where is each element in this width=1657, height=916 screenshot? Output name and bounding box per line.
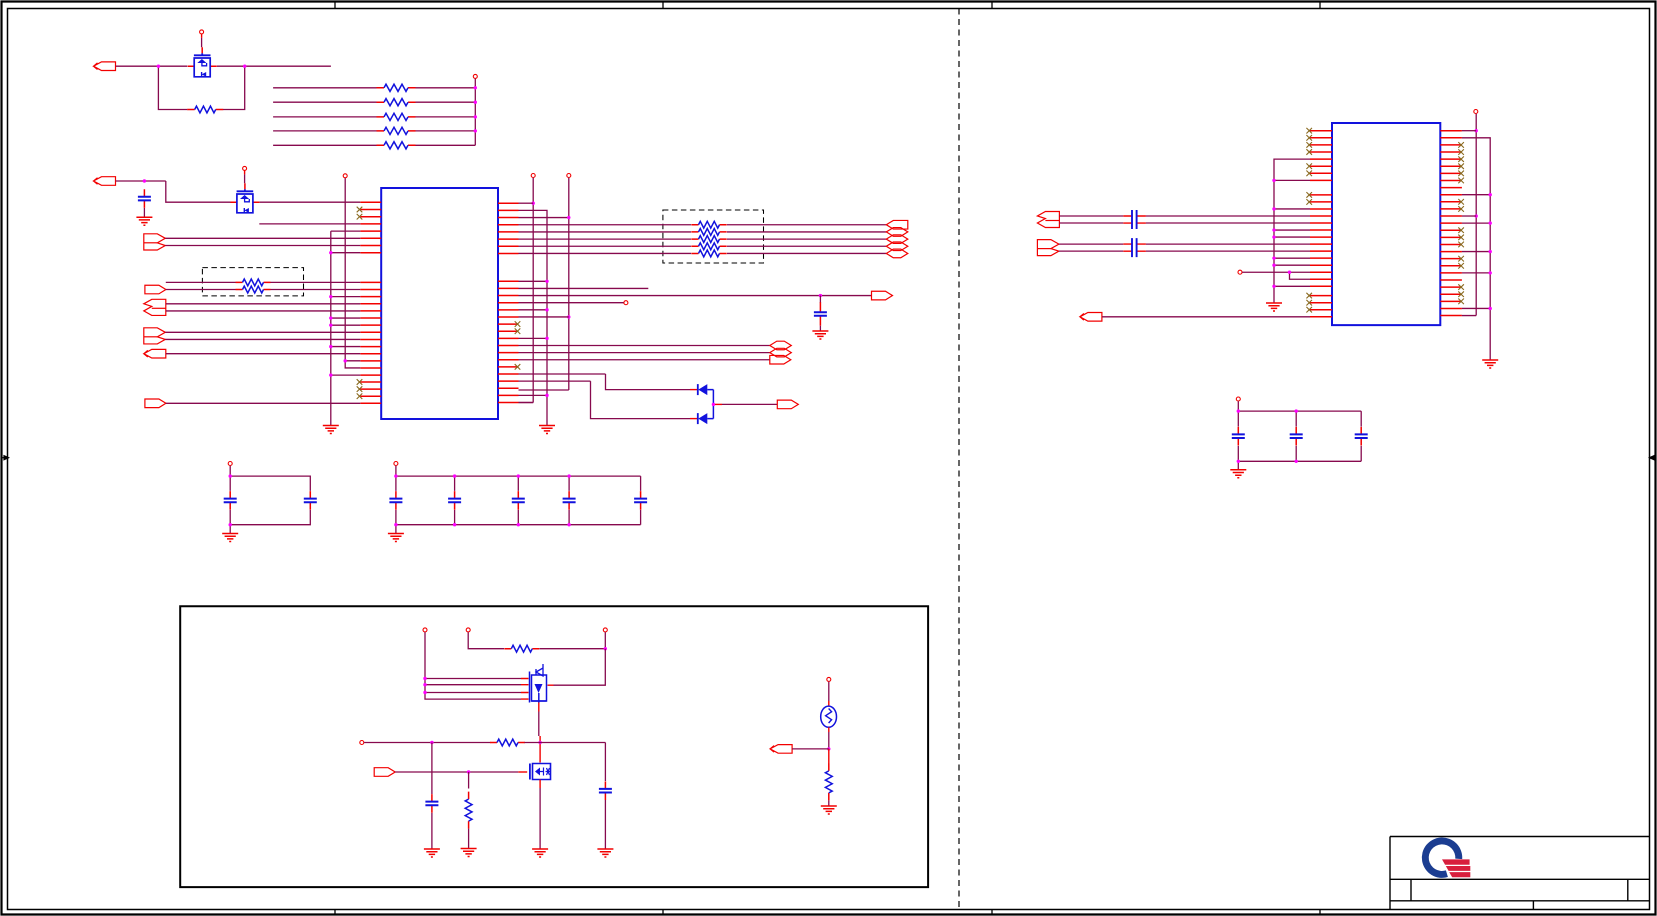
border zone tick marks top <box>335 2 1320 9</box>
pwr <box>567 174 571 178</box>
wire RN4 right <box>416 130 476 132</box>
wire U1.R7 to pack <box>519 245 692 247</box>
resistor pack dashed box DB2 <box>663 210 764 263</box>
wire BU2L to U2.m3 <box>1274 208 1310 210</box>
no-connect U2 right 5 <box>1458 156 1464 162</box>
wire RN2 right <box>416 101 476 103</box>
junction VCC2-4 <box>474 129 477 132</box>
wire R6 to gnd <box>468 829 470 849</box>
R7 stub <box>828 749 830 764</box>
port <box>886 220 908 229</box>
IC U1 right pin stubs <box>498 203 519 402</box>
subcircuit enclosure box <box>180 606 928 887</box>
junction CB2 top <box>394 474 397 477</box>
wire bus BL1 to U1.M7 <box>331 324 361 326</box>
no-connect U2 right 23 <box>1458 284 1464 290</box>
port <box>144 234 166 250</box>
resistor RN3 <box>377 116 416 118</box>
ground G14 <box>1230 470 1246 478</box>
junction BU2L-m7 <box>1272 235 1275 238</box>
no-connect U2 right 8 <box>1458 178 1464 184</box>
diode common cathode wire <box>707 390 713 419</box>
port <box>94 177 116 186</box>
junction node H <box>827 747 830 750</box>
transistor Q4 body <box>530 672 547 703</box>
no-connect U1 left pin2 <box>357 207 363 213</box>
wire VCC2 bus <box>474 79 476 146</box>
pwr <box>466 628 470 632</box>
ground G7 <box>597 849 613 857</box>
capacitor C13 <box>1295 427 1297 446</box>
capacitor pair CP2 stubs <box>1123 244 1146 251</box>
capacitor C14 <box>1360 427 1362 446</box>
wire U1.R1 to BR1 <box>519 202 534 204</box>
wire pack RP2 to port <box>727 231 886 233</box>
junction N1-a <box>157 65 160 68</box>
wire bus BL1 to U1.M14 <box>331 374 361 376</box>
IC U1 left pin stubs <box>360 202 381 403</box>
junction BUB-10 <box>1489 193 1492 196</box>
junction BUB-18 <box>1489 250 1492 253</box>
wire T2 to R5 <box>364 742 490 744</box>
no-connect U2 left m2 <box>1306 199 1312 205</box>
thermistor RT1 stub bottom <box>828 727 830 732</box>
wire RN5 left <box>273 144 376 146</box>
junction CB3 bot2 <box>1295 460 1298 463</box>
wire P14 to node H <box>792 748 829 750</box>
wire U1.L4 stub net <box>259 223 360 225</box>
ground G4 <box>812 331 828 339</box>
capacitor CP1 plates <box>1132 210 1137 229</box>
junction CB3 top2 <box>1295 409 1298 412</box>
wire RN5 right <box>416 144 476 146</box>
wire node D down to Q4 drain <box>554 649 606 686</box>
wire U1.M10 to port P9a <box>519 344 770 346</box>
wire VCC11 stub <box>604 632 606 649</box>
no-connect U2 right 12 <box>1458 206 1464 212</box>
junction BUB-26 <box>1489 307 1492 310</box>
capacitor pair CP1 stubs <box>1123 216 1146 223</box>
pwr <box>200 30 204 34</box>
border center arrow right <box>1650 456 1656 460</box>
port <box>145 285 166 294</box>
no-connect U2 left t4 <box>1306 149 1312 155</box>
junction node D <box>604 647 607 650</box>
wire CP2b to U2.m9 <box>1146 250 1310 252</box>
pwr <box>343 174 347 178</box>
wire CP1b to U2.m5 <box>1146 222 1310 224</box>
pwr <box>531 174 535 178</box>
wire CP1a to U2.m4 <box>1146 215 1310 217</box>
Q5 drain stub <box>539 736 541 763</box>
capacitor C6 <box>454 491 456 510</box>
bus BUA <box>1462 114 1476 316</box>
resistor RP5 <box>691 252 726 254</box>
pwr <box>360 741 364 745</box>
wire U1.M11 to port P9b <box>519 352 770 354</box>
wire bus BL1 to U1.M6 <box>331 317 361 319</box>
wire U1.M14 to D1 <box>519 374 691 390</box>
junction CB1 bottom <box>229 523 232 526</box>
junction BL1-M6 <box>329 316 332 319</box>
junction BUA-13 <box>1475 214 1478 217</box>
wire P3b to U1.M5 <box>166 310 360 312</box>
wire P2 left <box>166 289 236 291</box>
wire VCC10 to R4 <box>468 632 504 649</box>
no-connect U2 right 15 <box>1458 227 1464 233</box>
junction VCC2-2 <box>474 101 477 104</box>
wire BU2L to U2.m6 <box>1274 229 1310 231</box>
Q5 gate stub <box>518 771 527 773</box>
wire N3 to C2 <box>819 296 821 303</box>
ground G13 <box>1482 360 1498 368</box>
no-connect U2 left b1 <box>1306 293 1312 299</box>
wire U1.R6 to pack <box>519 238 692 240</box>
junction BR3-R3 <box>567 216 570 219</box>
no-connect U2 right 19 <box>1458 256 1464 262</box>
junction N1-b <box>243 65 246 68</box>
ground G11 <box>821 806 837 814</box>
wire U1.M9 to BR2 <box>519 337 548 339</box>
wire U1.R4 to pack <box>519 224 692 226</box>
open pin terminal T1 <box>624 301 628 305</box>
capacitor C7 <box>517 491 519 510</box>
wire U1.R5 to pack <box>519 231 692 233</box>
wire to port P10 <box>722 403 777 405</box>
ground G6 <box>388 534 404 542</box>
bus BUB <box>1462 138 1490 360</box>
wire pack RP3 to port <box>727 238 886 240</box>
wire U1.R8 to pack <box>519 252 692 254</box>
wire P3a to U1.M4 <box>166 303 360 305</box>
junction BR2-M1 <box>545 280 548 283</box>
bus BL2 vertical <box>345 178 360 368</box>
port <box>777 400 798 409</box>
wire U2.r26 to BUB <box>1462 307 1490 309</box>
wire bus BL1 top to U1.L5 <box>331 230 361 232</box>
capacitor C12 <box>1237 427 1239 446</box>
no-connect U2 left b2 <box>1306 300 1312 306</box>
wire BU2L to U2.m11 <box>1274 264 1310 266</box>
port <box>144 349 166 358</box>
wire Q4 source down <box>538 712 540 737</box>
resistor RN4 <box>377 130 416 132</box>
junction BR2-M5 <box>545 308 548 311</box>
ground G2 (bus BL1) <box>323 426 339 434</box>
wire P4b to U1.M9 <box>165 338 360 340</box>
no-connect U2 left t6 <box>1306 163 1312 169</box>
capacitor C8 <box>568 491 570 510</box>
junction BU2L-m14 <box>1272 285 1275 288</box>
ground G3 (bus BR2) <box>539 426 555 434</box>
no-connect U2 right 3 <box>1458 142 1464 148</box>
resistor pack dashed box DB1 <box>202 268 303 296</box>
wire P1a to U1.L6 <box>165 237 360 239</box>
resistor RP2 <box>691 231 726 233</box>
port <box>770 355 791 364</box>
capacitor C3 <box>229 491 231 510</box>
junction BL2-M12 <box>344 359 347 362</box>
no-connect U2 left t2 <box>1306 135 1312 141</box>
wire C2 to gnd <box>819 326 821 331</box>
pwr <box>1238 270 1242 274</box>
title block outline <box>1390 837 1650 910</box>
port <box>886 228 908 237</box>
junction Q4-g1 <box>423 677 426 680</box>
no-connect U1 left pin24 <box>357 386 363 392</box>
junction BL1-M3 <box>329 295 332 298</box>
transistor Q5 source stub <box>539 780 541 789</box>
transistor Q4 pin stubs <box>521 679 554 700</box>
ground G1 <box>136 217 152 225</box>
wire RN1 right <box>416 87 476 89</box>
port <box>886 235 908 244</box>
no-connect U2 right 25 <box>1458 299 1464 305</box>
wire P12b to cap <box>1059 250 1123 252</box>
capacitor CP2 plates <box>1132 238 1137 257</box>
no-connect U2 left t3 <box>1306 142 1312 148</box>
resistor R7 <box>828 763 830 800</box>
resistor R3 <box>236 289 271 291</box>
IC U2 right pin stubs <box>1440 131 1462 316</box>
junction Q4-g3 <box>423 691 426 694</box>
bus BU2L <box>1274 159 1310 303</box>
no-connect U2 right 4 <box>1458 149 1464 155</box>
cap bank3 rails <box>1238 401 1361 470</box>
wire U1.M18 to BR1 bottom <box>519 402 534 404</box>
ground G10 <box>461 849 477 857</box>
wire Q4 gates <box>425 632 521 699</box>
resistor R4 <box>504 648 539 650</box>
bus BR1 vertical <box>519 178 534 403</box>
capacitor C1 <box>143 189 145 208</box>
port <box>770 348 792 357</box>
wire U2.r1 to BUA <box>1462 130 1476 132</box>
wire VCC3 to Q2 <box>244 174 246 183</box>
diode D1 stub <box>690 389 697 391</box>
capacitor C10 <box>604 781 606 800</box>
capacitor C11 <box>431 794 433 813</box>
wire U2.r13 to BUA <box>1462 215 1476 217</box>
wire U1.M6 to BR3 <box>519 316 569 318</box>
wire BU2L to U2.m10 <box>1274 257 1310 259</box>
port <box>886 242 908 251</box>
port <box>94 62 116 71</box>
pwr <box>243 166 247 170</box>
wire P4a to U1.M8 <box>165 331 360 333</box>
wire bus BL1 to U1.M3 <box>331 296 361 298</box>
junction CB2 bottom <box>567 523 570 526</box>
junction BR3-M6 <box>567 315 570 318</box>
junction BR2-M9 <box>545 337 548 340</box>
wire U1.M3r long to port P8 <box>519 295 872 297</box>
wire BU2L to U2.t8 <box>1274 179 1310 181</box>
capacitor C5 <box>395 491 397 510</box>
junction CB1 top <box>229 474 232 477</box>
pwr <box>423 628 427 632</box>
junction node G <box>467 770 470 773</box>
wire C1 to gnd <box>143 208 145 217</box>
junction CB2 bottom <box>453 523 456 526</box>
no-connect U2 right 6 <box>1458 163 1464 169</box>
junction D1-D2 <box>712 403 715 406</box>
transistor Q5 <box>533 764 551 780</box>
wire U1.M17 to BR2 <box>519 394 548 396</box>
company logo blue ring <box>1422 837 1462 877</box>
wire U1.M2r dangling <box>519 287 649 289</box>
wire U1.M12 to port P9c <box>519 359 770 361</box>
resistor R1 <box>187 109 223 111</box>
wire RN2 left <box>273 101 376 103</box>
no-connect U2 right 11 <box>1458 199 1464 205</box>
transistor Q1 <box>188 47 217 66</box>
title block cell dividers <box>1411 879 1628 909</box>
wire BU2L to U2.m7 <box>1274 236 1310 238</box>
diode D1 <box>697 384 699 395</box>
port <box>886 249 908 258</box>
wire U1.M1 to BR2 <box>519 280 548 282</box>
wire CP2a to U2.m8 <box>1146 243 1310 245</box>
junction CB2 bottom <box>394 523 397 526</box>
resistor RP1 <box>691 224 726 226</box>
junction CB3 top1 <box>1237 409 1240 412</box>
bus BL1 vertical <box>330 231 332 425</box>
no-connect U2 right 17 <box>1458 242 1464 248</box>
wire N1 right loop down <box>223 66 245 109</box>
resistor RN1 <box>377 87 416 89</box>
junction CB2 bottom <box>517 523 520 526</box>
IC U2 body <box>1332 123 1440 325</box>
port <box>770 341 792 350</box>
resistor R2 <box>236 281 271 283</box>
junction BUA-1 <box>1475 129 1478 132</box>
capacitor C2 <box>819 302 821 326</box>
ground G9 <box>532 849 548 857</box>
border zone tick marks bottom <box>335 910 1320 915</box>
junction BUB-21 <box>1489 271 1492 274</box>
wire P15 to Q5 gate <box>395 771 518 773</box>
wire net RX1 left <box>166 281 236 283</box>
wire U2.r14 to BUB <box>1462 222 1490 224</box>
wire node E down right cap <box>604 743 606 782</box>
port <box>374 768 395 777</box>
port <box>1037 211 1059 227</box>
wire BU2L to U2.m14 <box>1274 285 1310 287</box>
wire bus BL1 to U1.L8 <box>331 252 361 254</box>
wire RT1 to node H <box>828 732 830 749</box>
resistor R5 <box>490 742 525 744</box>
capacitor C4 <box>309 491 311 510</box>
port <box>144 328 166 344</box>
no-connect U2 left t7 <box>1306 171 1312 177</box>
ground G12 <box>1266 303 1282 311</box>
port <box>1080 313 1102 322</box>
port <box>144 299 166 315</box>
wire N1 left loop down <box>158 66 187 109</box>
wire RN4 left <box>273 130 376 132</box>
resistor RP3 <box>691 238 726 240</box>
junction CB2 top <box>517 474 520 477</box>
junction N2 <box>143 179 146 182</box>
wire P6 to U1.L26 <box>166 402 360 404</box>
junction CB2 top <box>453 474 456 477</box>
no-connect U2 left b3 <box>1306 307 1312 313</box>
wire U1.M15 to D2 <box>519 381 691 418</box>
wire RN3 right <box>416 116 476 118</box>
resistor RP4 <box>691 245 726 247</box>
wire C10 to gnd <box>604 800 606 849</box>
wire bus BL1 to U1.M10 <box>331 346 361 348</box>
junction node F <box>430 741 433 744</box>
transistor Q4 source stub <box>538 703 540 712</box>
pwr <box>1236 397 1240 401</box>
junction BU2L-m11 <box>1272 264 1275 267</box>
pwr <box>394 462 398 466</box>
port <box>145 399 166 408</box>
no-connect U2 right 16 <box>1458 235 1464 241</box>
junction BR1-r1 <box>532 202 535 205</box>
junction VCC2-1 <box>474 86 477 89</box>
resistor RN5 <box>377 144 416 146</box>
no-connect U2 right 24 <box>1458 291 1464 297</box>
no-connect U1 right pin r8 <box>515 328 521 334</box>
wire RN1 left <box>273 87 376 89</box>
thermistor RT1 <box>821 706 837 727</box>
wire P13 to U2.b4 <box>1102 316 1310 318</box>
pwr <box>473 74 477 78</box>
pwr <box>228 462 232 466</box>
wire node G down to R6 <box>468 772 470 789</box>
port P10 stub <box>713 403 722 405</box>
pwr <box>1474 110 1478 114</box>
wire R5 to node E <box>525 742 606 744</box>
junction VCC2-3 <box>474 115 477 118</box>
wire C11 to gnd <box>431 813 433 849</box>
IC U2 left pin stubs <box>1310 131 1332 317</box>
resistor R6 <box>468 792 470 829</box>
wire U1.M5 to BR2 <box>519 309 548 311</box>
port <box>1037 240 1059 256</box>
bus BR2 vertical <box>519 210 548 425</box>
wire RX1 to U1.M1 <box>271 281 361 283</box>
wire P1b to U1.L7 <box>165 245 360 247</box>
pwr <box>603 628 607 632</box>
IC U1 body <box>381 188 498 419</box>
junction BL1-M14 <box>329 373 332 376</box>
pwr <box>827 677 831 681</box>
ground G8 <box>424 849 440 857</box>
wire pack RP4 to port <box>727 245 886 247</box>
wire P11a to cap <box>1059 215 1123 217</box>
wire Q5 source to gnd <box>539 788 541 849</box>
junction Q4-g2 <box>423 683 426 686</box>
resistor RN2 <box>377 101 416 103</box>
capacitor C9 <box>640 491 642 510</box>
wire P5 to U1.M11 <box>166 353 360 355</box>
no-connect U2 right 7 <box>1458 171 1464 177</box>
no-connect U2 left m1 <box>1306 192 1312 198</box>
thermistor RT1 stub top <box>828 701 830 706</box>
no-connect U2 left t1 <box>1306 128 1312 134</box>
wire N2 from port <box>116 180 166 182</box>
port <box>872 291 893 300</box>
junction BL1-M7 <box>329 323 332 326</box>
junction BR2-M17 <box>545 394 548 397</box>
junction N3-cap <box>819 294 822 297</box>
junction BU2L-m10 <box>1272 256 1275 259</box>
junction BL1-M10 <box>329 345 332 348</box>
transistor Q2 <box>230 183 259 202</box>
